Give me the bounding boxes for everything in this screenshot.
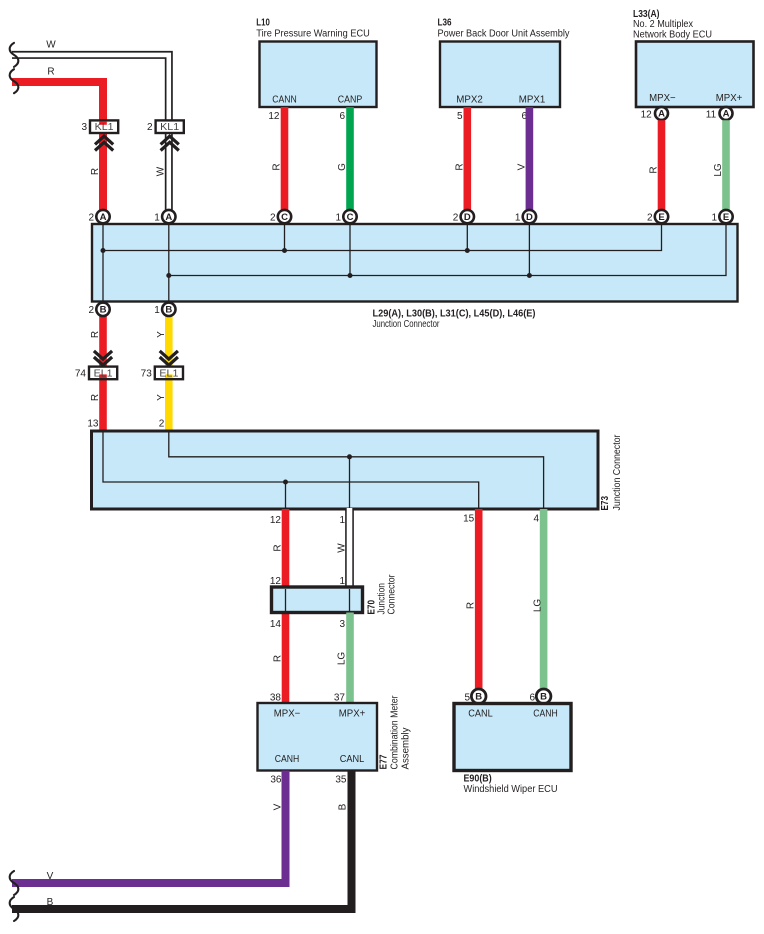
wire R (junction B2 to EL1 to E73) xyxy=(99,316,107,431)
svg-text:1: 1 xyxy=(154,305,160,316)
svg-text:1: 1 xyxy=(515,212,521,223)
internal wire to pin1 xyxy=(349,457,351,508)
svg-text:2: 2 xyxy=(147,122,153,133)
connector KL1 pin 3 xyxy=(81,120,118,133)
wire R (E73 pin15 to E90) xyxy=(475,509,483,690)
internal bus upper (2-side) xyxy=(103,225,662,251)
svg-text:Y: Y xyxy=(156,394,167,401)
junction dots xyxy=(283,480,288,485)
svg-text:V: V xyxy=(47,871,54,882)
svg-text:1: 1 xyxy=(335,212,341,223)
svg-text:E90(B): E90(B) xyxy=(464,773,492,784)
svg-text:Y: Y xyxy=(156,331,167,338)
wire G (L10 CANP to junction C) xyxy=(346,107,354,210)
svg-text:L33(A): L33(A) xyxy=(633,9,660,20)
svg-text:LG: LG xyxy=(713,163,724,177)
svg-text:B: B xyxy=(338,803,349,810)
internal wire from pin2 xyxy=(169,432,544,508)
svg-text:1: 1 xyxy=(711,212,717,223)
svg-text:2: 2 xyxy=(159,419,165,430)
svg-text:15: 15 xyxy=(463,514,475,525)
svg-text:A: A xyxy=(723,109,730,120)
svg-text:Assembly: Assembly xyxy=(401,728,412,770)
svg-text:R: R xyxy=(90,168,101,175)
svg-text:R: R xyxy=(90,331,101,338)
svg-text:12: 12 xyxy=(641,110,653,121)
wire LG (L33 MPX+ to junction E) xyxy=(722,120,730,210)
svg-text:R: R xyxy=(273,655,284,662)
svg-text:CANL: CANL xyxy=(468,708,493,719)
svg-text:1: 1 xyxy=(154,212,160,223)
svg-text:2: 2 xyxy=(88,305,94,316)
svg-text:E: E xyxy=(723,212,729,223)
svg-text:Power Back Door Unit Assembly: Power Back Door Unit Assembly xyxy=(438,29,570,40)
wire LG (E73 pin4 to E90) xyxy=(540,509,548,690)
svg-text:35: 35 xyxy=(335,775,347,786)
svg-text:13: 13 xyxy=(87,419,99,430)
wire R (E73 pin12 to E70 to meter) xyxy=(282,509,290,703)
svg-text:R: R xyxy=(649,166,660,173)
wire LG (E70 pin3 to meter) xyxy=(346,613,354,704)
svg-text:Network Body ECU: Network Body ECU xyxy=(633,29,712,40)
svg-text:Combination Meter: Combination Meter xyxy=(390,695,401,770)
svg-text:Windshield Wiper ECU: Windshield Wiper ECU xyxy=(464,784,558,795)
svg-text:V: V xyxy=(516,163,527,170)
svg-text:Tire Pressure Warning ECU: Tire Pressure Warning ECU xyxy=(256,29,370,40)
internal wire to pin12 xyxy=(285,482,287,508)
wire R (top left horizontal, red) xyxy=(12,82,103,210)
internal wire C1 vertical xyxy=(349,225,351,276)
junction connector E73 xyxy=(92,431,599,509)
svg-text:MPX+: MPX+ xyxy=(716,93,743,104)
svg-text:R: R xyxy=(466,602,477,609)
svg-text:G: G xyxy=(337,163,348,171)
wire W (top left horizontal, white wire to KL1) xyxy=(12,55,169,211)
chevron arrow (EL1 73) xyxy=(160,351,178,365)
svg-text:B: B xyxy=(165,305,172,316)
ECU E77 Combination Meter Assembly xyxy=(258,703,378,771)
wire R (L36 MPX2 to junction D) xyxy=(463,107,471,210)
svg-text:MPX−: MPX− xyxy=(649,93,676,104)
svg-text:CANN: CANN xyxy=(272,95,297,106)
svg-text:3: 3 xyxy=(339,619,345,630)
svg-text:B: B xyxy=(475,692,482,703)
svg-text:36: 36 xyxy=(270,775,282,786)
svg-text:MPX+: MPX+ xyxy=(339,709,366,720)
internal wire A1 vertical xyxy=(168,225,170,301)
svg-text:R: R xyxy=(273,544,284,551)
svg-text:KL1: KL1 xyxy=(160,122,179,133)
svg-text:L10: L10 xyxy=(256,17,270,28)
svg-text:V: V xyxy=(273,803,284,810)
svg-text:14: 14 xyxy=(270,619,282,630)
svg-text:L36: L36 xyxy=(438,17,452,28)
svg-text:CANP: CANP xyxy=(338,95,363,106)
svg-text:EL1: EL1 xyxy=(159,368,178,379)
svg-text:2: 2 xyxy=(647,212,653,223)
svg-text:MPX−: MPX− xyxy=(274,709,301,720)
ECU L10 Tire Pressure Warning ECU xyxy=(256,17,376,107)
internal wire D2 vertical xyxy=(466,225,468,251)
ECU L33(A) No.2 Multiplex Network Body ECU xyxy=(633,9,754,107)
svg-text:B: B xyxy=(100,305,107,316)
svg-text:Junction Connector: Junction Connector xyxy=(612,434,623,511)
svg-text:CANL: CANL xyxy=(340,754,365,765)
svg-text:12: 12 xyxy=(268,111,280,122)
svg-text:W: W xyxy=(156,166,167,176)
connector EL1 pin 74 xyxy=(75,367,117,380)
svg-text:E73: E73 xyxy=(600,496,611,511)
svg-text:2: 2 xyxy=(88,212,94,223)
svg-text:B: B xyxy=(540,692,547,703)
wire R (L10 CANN to junction C) xyxy=(281,107,289,210)
svg-text:CANH: CANH xyxy=(533,708,558,719)
svg-text:73: 73 xyxy=(141,368,153,379)
wire V (L36 MPX1 to junction D) xyxy=(526,107,534,210)
junction dots xyxy=(101,248,106,253)
svg-text:6: 6 xyxy=(339,111,345,122)
svg-text:LG: LG xyxy=(533,599,544,613)
wire V (meter CANH to bottom left) xyxy=(12,771,286,884)
svg-text:12: 12 xyxy=(270,515,282,526)
svg-text:EL1: EL1 xyxy=(94,368,113,379)
internal bus lower (1-side) xyxy=(169,225,726,276)
junction connector E70 xyxy=(272,587,363,613)
svg-text:KL1: KL1 xyxy=(95,122,114,133)
svg-text:E77: E77 xyxy=(379,754,390,769)
svg-text:W: W xyxy=(337,543,348,553)
svg-text:74: 74 xyxy=(75,368,87,379)
wire Y (junction B1 to EL1 to E73) xyxy=(165,316,173,431)
chevron arrow (EL1 74) xyxy=(94,351,112,365)
connector EL1 pin 73 xyxy=(141,367,183,380)
svg-text:B: B xyxy=(47,897,54,908)
svg-text:1: 1 xyxy=(339,515,345,526)
svg-text:2: 2 xyxy=(270,212,276,223)
junction connector L29(A) L30(B) L31(C) L45(D) L46(E) xyxy=(92,224,738,302)
svg-text:R: R xyxy=(272,163,283,170)
svg-text:R: R xyxy=(454,163,465,170)
svg-text:E: E xyxy=(658,212,664,223)
svg-text:W: W xyxy=(46,40,56,51)
chevron arrow (KL1 pin2) xyxy=(161,136,179,150)
internal wire from pin13 xyxy=(103,432,479,508)
svg-text:Connector: Connector xyxy=(387,574,398,615)
break symbol on wire B xyxy=(10,897,19,921)
connector KL1 pin 2 xyxy=(147,120,184,133)
svg-text:C: C xyxy=(347,212,354,223)
svg-text:A: A xyxy=(165,212,172,223)
svg-text:D: D xyxy=(464,212,471,223)
svg-text:2: 2 xyxy=(453,212,459,223)
svg-text:Junction Connector: Junction Connector xyxy=(373,319,441,330)
wire R (L33 MPX- to junction E) xyxy=(658,120,666,210)
svg-text:C: C xyxy=(281,212,288,223)
svg-text:LG: LG xyxy=(337,652,348,666)
break symbol on wire R xyxy=(10,69,19,93)
svg-text:R: R xyxy=(47,67,54,78)
svg-text:5: 5 xyxy=(457,111,463,122)
svg-text:A: A xyxy=(658,109,665,120)
svg-text:R: R xyxy=(90,394,101,401)
svg-text:6: 6 xyxy=(529,692,535,703)
svg-text:3: 3 xyxy=(81,122,87,133)
chevron arrow (KL1 pin3) xyxy=(95,136,113,150)
ECU L36 Power Back Door Unit Assembly xyxy=(438,17,570,107)
break symbol on wire V xyxy=(10,871,19,895)
internal wire C2 vertical xyxy=(284,225,286,251)
svg-text:D: D xyxy=(526,212,533,223)
svg-text:MPX1: MPX1 xyxy=(519,95,546,106)
svg-text:MPX2: MPX2 xyxy=(456,95,483,106)
svg-text:11: 11 xyxy=(706,110,717,121)
ECU E90(B) Windshield Wiper ECU xyxy=(454,704,571,771)
wire B (meter CANL to bottom left) xyxy=(12,771,352,910)
break symbol on wire W xyxy=(10,43,19,67)
svg-text:4: 4 xyxy=(534,514,540,525)
wire W (E73 pin1 to E70) xyxy=(345,508,354,587)
svg-text:5: 5 xyxy=(464,692,470,703)
internal wire A2 vertical xyxy=(102,225,104,301)
svg-text:A: A xyxy=(100,212,107,223)
internal wire D1 vertical xyxy=(528,225,530,276)
svg-text:CANH: CANH xyxy=(275,754,300,765)
